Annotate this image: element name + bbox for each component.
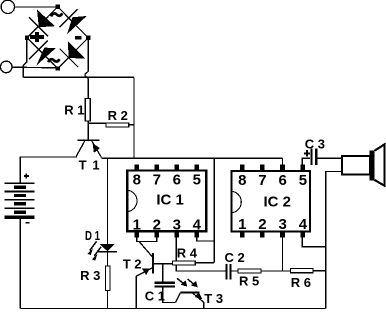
IC1 pin 3 (173, 216, 181, 237)
AC terminal circle top (1, 0, 14, 13)
IC2 pin 4 (299, 216, 308, 237)
transistor T1 (76, 140, 101, 157)
resistor R5 (238, 269, 261, 273)
svg-text:3: 3 (173, 216, 181, 233)
wire R5 right to R6 left with IC2 pin3 tap (262, 237, 291, 271)
bridge rectifier B1 diamond sides (27, 7, 88, 69)
wire T1 base from R1/R2 junction (87, 123, 89, 139)
resistor R1 (85, 98, 90, 121)
IC1 pin 1 (133, 216, 141, 237)
resistor R2 (106, 123, 129, 127)
svg-text:1: 1 (133, 216, 141, 233)
IC2 pin 6 (279, 165, 287, 190)
wire D1 branch from rail (107, 158, 109, 244)
node bridge bottom corner (56, 66, 60, 70)
IC1 notch (126, 190, 137, 212)
wire speaker return down right side (326, 171, 341, 308)
svg-text:C 2: C 2 (225, 250, 245, 265)
label T3 (204, 291, 223, 306)
label C2 (225, 250, 245, 265)
battery BT1 (5, 183, 35, 219)
svg-text:R 6: R 6 (291, 275, 311, 290)
svg-text:D 1: D 1 (85, 228, 100, 243)
wire battery plus to T1 collector (20, 156, 76, 182)
label plus on bridge (30, 32, 44, 42)
wire R6 right to ground riser (314, 270, 326, 272)
IC1 pin 5 (193, 164, 201, 188)
svg-text:8: 8 (238, 172, 246, 189)
wire ground rail bottom (20, 308, 325, 310)
label R3 (80, 268, 100, 283)
IC1 pin 8 (133, 164, 141, 188)
node bridge right corner (86, 36, 90, 40)
wire AC top to bridge (14, 6, 56, 8)
svg-text:R 4: R 4 (177, 246, 198, 261)
IC2 pin 1 (238, 216, 246, 237)
IC U1 body (127, 170, 206, 231)
diode D top-right of bridge (60, 9, 87, 34)
label R1 (64, 103, 84, 118)
wire R4 underside to C2 (176, 266, 225, 272)
IC2 pin 8 (238, 165, 246, 190)
label IC2 (264, 194, 292, 211)
svg-text:R 1: R 1 (64, 103, 84, 118)
label plus battery (24, 173, 29, 178)
diode D bottom-left of bridge (29, 40, 56, 65)
wire battery minus down to ground rail (19, 219, 21, 309)
node bridge top corner (56, 5, 60, 9)
svg-text:2: 2 (153, 216, 161, 233)
svg-text:2: 2 (258, 216, 266, 233)
wire C3 to speaker (317, 157, 341, 159)
diode D bottom-right of bridge (60, 41, 85, 67)
svg-text:5: 5 (193, 172, 201, 189)
svg-text:R 3: R 3 (80, 268, 100, 283)
svg-text:6: 6 (173, 172, 181, 189)
wire R1 bottom to R2 junction (88, 122, 105, 124)
svg-text:R 2: R 2 (108, 108, 128, 123)
svg-text:IC 2: IC 2 (264, 194, 292, 211)
IC2 notch (231, 191, 242, 213)
node bridge left corner (25, 36, 29, 40)
svg-text:4: 4 (299, 216, 308, 233)
svg-text:4: 4 (193, 216, 202, 233)
wire AC bottom to bridge (12, 66, 56, 69)
IC1 pin 6 (173, 164, 181, 188)
transistor T2 (136, 253, 153, 276)
wire V+ rail down into IC2 pin6 (282, 158, 284, 164)
wire T2 emitter to ground (135, 276, 137, 308)
diode D top-left of bridge (29, 10, 55, 37)
label C3 (305, 137, 325, 152)
wire IC1 pin3 down to R4 left (175, 237, 177, 260)
wire IC2 pin4 to ground riser (302, 238, 325, 247)
wire V+ rail from T1 emitter to IC2 pin6 (102, 157, 283, 159)
resistor R6 (291, 269, 313, 273)
svg-text:C 3: C 3 (305, 137, 325, 152)
capacitor C2 (226, 264, 230, 279)
wire IC1 pins 1,2 to T2 collector (137, 237, 157, 257)
LED D1 (87, 241, 117, 260)
IC2 pin 7 (258, 165, 266, 190)
wire C2 to R5 (232, 270, 238, 272)
label minus battery (25, 222, 29, 224)
svg-text:T 2: T 2 (123, 256, 142, 271)
phototransistor T3 (176, 292, 204, 302)
label plus C3 (304, 150, 310, 156)
T3 light arrows (177, 278, 198, 287)
wire IC2 pin5 up to C3 (302, 158, 310, 164)
IC1 pin 4 (193, 216, 202, 237)
svg-text:8: 8 (133, 172, 141, 189)
svg-text:T 1: T 1 (79, 158, 100, 173)
wire IC1 pin4 to V+ riser x214 (196, 158, 214, 263)
AC terminal circle bottom (0, 61, 12, 73)
label C1 (145, 289, 165, 304)
svg-text:7: 7 (258, 172, 266, 189)
IC2 pin 5 (299, 165, 307, 190)
capacitor C1 (155, 283, 175, 287)
wire plus rail horizontal (23, 76, 134, 78)
label IC1 (156, 192, 184, 209)
label R5 (239, 274, 259, 289)
resistor R4 (172, 261, 195, 265)
wire bridge plus corner down with hop over AC wire (23, 40, 26, 78)
svg-text:IC 1: IC 1 (156, 192, 184, 209)
svg-text:5: 5 (299, 172, 307, 189)
svg-text:R 5: R 5 (239, 274, 259, 289)
IC1 pin 7 (153, 164, 161, 188)
IC U2 body (232, 171, 310, 232)
label tilde top of bridge (51, 13, 62, 16)
IC1 pin 2 (153, 216, 161, 237)
IC2 pin 2 (258, 216, 266, 237)
wire T3 emitter to ground (203, 302, 205, 308)
label T2 (123, 256, 142, 271)
wire D1 to R3 (107, 252, 109, 266)
label R2 (108, 108, 128, 123)
label tilde bottom of bridge (48, 59, 59, 62)
label D1 (85, 228, 100, 243)
svg-text:3: 3 (279, 216, 287, 233)
wire T2 base to R4 left and C1 (153, 264, 172, 282)
wire bridge minus corner down with hop over plus rail (85, 40, 88, 98)
wire C1 bottom to T3 (163, 288, 176, 303)
label R6 (291, 275, 311, 290)
speaker LS1 (342, 144, 385, 186)
IC2 pin 3 (279, 216, 287, 237)
svg-text:1: 1 (238, 216, 246, 233)
wire R2 right to vertical riser x134 (129, 77, 134, 158)
wire R3 to ground rail (107, 291, 109, 309)
label R4 (177, 246, 198, 261)
svg-text:6: 6 (279, 172, 287, 189)
resistor R3 (105, 266, 110, 290)
svg-text:7: 7 (153, 172, 161, 189)
label minus on bridge (75, 36, 82, 40)
svg-text:T 3: T 3 (204, 291, 223, 306)
label T1 (79, 158, 100, 173)
capacitor C3 polarized (311, 149, 316, 165)
